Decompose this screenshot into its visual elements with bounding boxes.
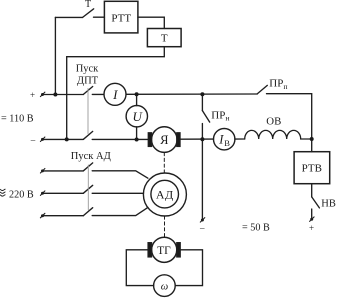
node junction U branch bottom (135, 138, 139, 142)
switch PRp blade (257, 85, 267, 94)
motor AD inner circle (151, 180, 179, 208)
field winding OV coil (245, 130, 301, 139)
wire phase 1 (44, 170, 83, 172)
wire plus rail (44, 94, 83, 96)
node junction V2-minus rail (65, 137, 69, 141)
wire PRn node down to minus terminal (201, 139, 203, 218)
wire to ammeter (92, 93, 104, 95)
wire PRn branch vertical upper (201, 94, 203, 110)
svg-text:В: В (224, 138, 230, 148)
switch Pusk DPT upper blade (83, 87, 92, 95)
wire vertical V1 down to plus rail (54, 17, 56, 94)
wire phase 3 (44, 215, 83, 217)
relay contact box T (147, 29, 181, 47)
terminal minus 50V (200, 218, 205, 223)
node junction RTV top (310, 137, 314, 141)
wire NV to plus terminal (311, 209, 313, 218)
svg-text:= 50 В: = 50 В (242, 223, 270, 234)
tachogenerator TG brush left (148, 243, 151, 257)
wire coil to node (301, 138, 312, 140)
switch NV blade (312, 197, 320, 208)
relay RTT box (104, 1, 137, 33)
meter omega circle (154, 275, 176, 297)
wire TG loop left (126, 250, 153, 286)
svg-text:U: U (133, 109, 144, 124)
svg-text:РТВ: РТВ (302, 163, 322, 175)
svg-text:Т: Т (161, 33, 168, 45)
wire switch T to RTT box (94, 16, 105, 18)
switch T blade (83, 9, 94, 18)
wire phase 3 to AD (92, 207, 148, 215)
wire T box bottom down-left to minus rail (67, 47, 165, 140)
node junction U branch top (135, 92, 139, 96)
armature brush right (177, 133, 180, 147)
terminal phase 2 (40, 191, 45, 196)
svg-text:+: + (309, 223, 314, 233)
armature brush left (148, 133, 151, 147)
node junction V1-plus rail (53, 93, 57, 97)
switch Pusk DPT lower blade (83, 131, 92, 139)
svg-text:+: + (30, 90, 35, 100)
wire branch down to voltmeter U (136, 94, 138, 105)
armature Ya circle (152, 127, 178, 153)
label ~ 220 V (triple tilde cut at edge) (0, 189, 6, 196)
wire U to minus rail (136, 127, 138, 140)
node junction PRn top (200, 92, 204, 96)
switch Pusk AD blade 3 (83, 208, 92, 216)
wire RTT to T box (138, 17, 164, 28)
svg-text:ДПТ: ДПТ (77, 76, 99, 87)
svg-text:Т: Т (85, 0, 91, 10)
mechanical link Pusk AD (87, 165, 89, 210)
svg-text:= 110 В: = 110 В (1, 113, 34, 124)
wire TG loop right (175, 250, 202, 286)
wire phase 1 to AD (92, 171, 148, 178)
wire phase 2 (44, 192, 83, 194)
svg-text:ТГ: ТГ (157, 245, 171, 257)
shaft coupling Ya to AD (dashed) (163, 153, 165, 173)
svg-text:РТТ: РТТ (111, 13, 131, 25)
svg-text:АД: АД (156, 188, 174, 202)
wire minus rail to armature (92, 138, 148, 140)
wire plus rail right section (126, 93, 257, 95)
wire PRp to corner and down to RTV (267, 94, 312, 152)
wire phase 2 to AD (92, 192, 143, 194)
terminal phase 1 (40, 169, 45, 174)
svg-text:ПРн: ПРн (211, 109, 229, 122)
relay RTV box (294, 152, 330, 184)
ammeter I (104, 83, 126, 105)
terminal plus 50V (310, 217, 315, 222)
svg-text:Пуск АД: Пуск АД (71, 151, 111, 162)
terminal minus 110V (40, 137, 45, 142)
wire top rail from V1 to switch T (55, 16, 82, 18)
wire armature to IB (180, 138, 214, 140)
wire RTV to switch NV (311, 184, 313, 197)
wire minus rail (44, 138, 83, 140)
switch Pusk AD blade 2 (83, 185, 92, 193)
switch Pusk AD blade 1 (83, 163, 92, 171)
svg-text:–: – (30, 135, 36, 145)
terminal phase 3 (40, 213, 45, 218)
tachogenerator TG circle (152, 237, 177, 262)
switch PRn blade (202, 111, 209, 123)
terminal plus 110V (40, 92, 45, 97)
mechanical link Pusk DPT (87, 89, 89, 134)
motor AD outer circle (143, 173, 186, 216)
svg-text:Пуск: Пуск (76, 64, 99, 75)
wire PRn branch vertical lower (201, 124, 203, 140)
svg-text:I: I (112, 87, 118, 102)
svg-text:ОВ: ОВ (266, 115, 281, 127)
shaft coupling AD to TG (dashed) (164, 216, 166, 237)
svg-text:ω: ω (161, 281, 168, 292)
svg-text:ПРп: ПРп (269, 78, 287, 91)
tachogenerator TG brush right (177, 243, 180, 257)
svg-text:НВ: НВ (321, 199, 336, 210)
ammeter IB (214, 129, 235, 150)
node junction PRn bottom (200, 137, 204, 141)
voltmeter U (126, 106, 147, 127)
svg-text:220 В: 220 В (9, 190, 34, 201)
svg-text:–: – (199, 223, 205, 233)
wire IB to coil (235, 138, 245, 140)
svg-text:Я: Я (160, 133, 168, 147)
